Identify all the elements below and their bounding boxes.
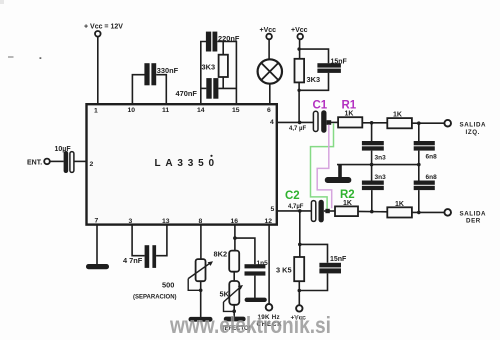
node junction 3K5 bottom xyxy=(298,289,302,293)
svg-text:5: 5 xyxy=(271,206,275,213)
terminal +Vcc (3K3 bias) xyxy=(291,27,308,40)
wire pin16 down xyxy=(234,225,236,250)
svg-text:10µF: 10µF xyxy=(55,146,72,153)
resistor 3K5 xyxy=(276,257,304,281)
svg-text:13: 13 xyxy=(162,218,170,225)
svg-text:1n5: 1n5 xyxy=(257,260,269,267)
svg-text:8: 8 xyxy=(199,218,203,225)
speck noise dot xyxy=(40,57,42,59)
svg-text:6: 6 xyxy=(267,107,271,114)
capacitor 6n8 (lower) xyxy=(414,174,437,190)
wire 15nF to 3K5 bottom xyxy=(299,273,327,290)
svg-text:7: 7 xyxy=(95,218,99,225)
wire 4.7nF to pin13 xyxy=(156,225,167,256)
svg-text:10: 10 xyxy=(128,107,136,114)
wire 5K wiper tie xyxy=(224,302,235,311)
svg-text:11: 11 xyxy=(162,107,169,114)
node junction on pin5 wire xyxy=(298,209,302,213)
wire 3K3 down to pin4 node xyxy=(298,82,300,122)
svg-text:C2: C2 xyxy=(285,190,300,202)
wire pin1 to +Vcc terminal xyxy=(97,37,99,105)
svg-text:+ Vcc = 12V: + Vcc = 12V xyxy=(84,24,123,31)
ground (pin8 / 500) xyxy=(189,317,213,322)
wire branch to 15nF bottom cap xyxy=(300,244,328,262)
speck noise left edge xyxy=(8,56,14,57)
wire R2 to 1K xyxy=(358,210,387,212)
wire 5K to ground xyxy=(233,305,235,317)
svg-text:5K: 5K xyxy=(220,290,230,299)
svg-text:3n3: 3n3 xyxy=(375,174,387,181)
capacitor 3n3 (lower) xyxy=(362,174,386,190)
wire 15nF bottom to 3K3 bottom xyxy=(299,73,328,90)
svg-text:+Vcc: +Vcc xyxy=(291,27,308,34)
wire pin4 to C1 xyxy=(277,121,314,123)
svg-text:4 7nF: 4 7nF xyxy=(123,256,143,265)
wire middle rail down to lower 3n3 xyxy=(371,165,373,181)
wire 1K to salida izq xyxy=(412,122,445,124)
svg-text:15nF: 15nF xyxy=(330,256,347,263)
svg-text:16: 16 xyxy=(231,218,239,225)
wire 3K5 to +Vcc terminal xyxy=(298,281,300,305)
capacitor C1 4.7uF xyxy=(313,99,328,133)
wire 8K2 to 5K xyxy=(233,272,235,281)
wire pin12 down to 19kHz check xyxy=(268,225,270,304)
terminal SALIDA DER xyxy=(444,209,486,224)
capacitor 6n8 (upper) xyxy=(414,141,437,160)
wire C2 node down to 3K5 xyxy=(299,211,301,257)
capacitor 1n5 xyxy=(245,260,269,276)
wire 500 wiper tie xyxy=(188,279,201,291)
capacitor 470nF xyxy=(176,78,219,99)
svg-text:3: 3 xyxy=(129,218,133,225)
svg-text:R1: R1 xyxy=(342,99,357,111)
svg-text:3K3: 3K3 xyxy=(307,75,321,84)
capacitor 10uF input xyxy=(55,146,74,173)
node A junction xyxy=(370,121,374,125)
node junction 5K bottom xyxy=(232,309,236,313)
ground (middle rail) xyxy=(325,165,352,183)
wire 1K to salida der xyxy=(412,211,445,213)
wire lower 3n3 to bottom row xyxy=(371,190,373,212)
svg-text:1K: 1K xyxy=(345,110,354,117)
node junction R2 out xyxy=(370,210,374,214)
wire +Vcc down to 3K3 xyxy=(299,39,301,59)
terminal ENT input xyxy=(27,159,50,167)
wire C1 to R1 xyxy=(331,121,338,123)
ground (1n5) xyxy=(245,298,267,302)
svg-text:14: 14 xyxy=(197,107,205,114)
svg-text:ENT.: ENT. xyxy=(27,159,42,166)
wire pin10 up and right to C 330nF xyxy=(132,75,144,105)
wire +Vcc to lamp xyxy=(268,39,270,59)
IC U1 LA3350 body xyxy=(87,104,277,224)
wire branch to 15nF xyxy=(299,49,328,63)
svg-text:4,7 µF: 4,7 µF xyxy=(289,126,306,132)
svg-text:www.elektronik.si: www.elektronik.si xyxy=(169,312,331,338)
potentiometer 5K xyxy=(220,281,244,305)
svg-text:LA3350: LA3350 xyxy=(155,158,219,169)
svg-text:R2: R2 xyxy=(340,189,355,201)
svg-text:SALIDA: SALIDA xyxy=(460,210,487,217)
svg-text:330nF: 330nF xyxy=(157,66,179,75)
wire 10uF to pin2 xyxy=(74,160,87,162)
wire 6n8 to middle rail xyxy=(418,151,420,165)
node junction bottom of 3K3 xyxy=(297,89,300,92)
wire C330nF to pin11 xyxy=(156,75,166,105)
svg-text:4: 4 xyxy=(270,119,274,126)
speck noise corner xyxy=(0,0,4,4)
capacitor 4.7nF xyxy=(123,245,156,268)
wire lamp to pin6 xyxy=(269,84,271,105)
terminal +Vcc (lamp) xyxy=(260,27,277,40)
svg-text:(SEPARACION): (SEPARACION) xyxy=(133,294,177,300)
wire ENT to 10uF xyxy=(50,160,64,162)
highlight line green (C1 to C2) xyxy=(311,123,334,209)
capacitor 15nF (top) xyxy=(317,59,347,73)
svg-text:12: 12 xyxy=(265,218,273,225)
svg-text:3K3: 3K3 xyxy=(202,62,216,71)
wire 500 to ground xyxy=(200,281,202,317)
terminal +Vcc (bottom) xyxy=(291,305,307,321)
svg-text:1K: 1K xyxy=(393,111,402,118)
svg-text:6n8: 6n8 xyxy=(426,153,438,160)
wire pin5 to C2 xyxy=(277,210,312,212)
svg-text:8K2: 8K2 xyxy=(214,249,228,258)
svg-text:6n8: 6n8 xyxy=(426,174,438,181)
svg-text:1K: 1K xyxy=(343,200,352,207)
node junction out der xyxy=(417,211,421,215)
highlight line magenta (C1 to C2) xyxy=(317,125,332,208)
svg-text:500: 500 xyxy=(162,280,174,289)
node junction rail/6n8 xyxy=(417,163,421,167)
svg-text:+Vcc: +Vcc xyxy=(260,27,277,34)
terminal +Vcc = 12V xyxy=(84,24,123,37)
wire 3n3 to middle rail xyxy=(371,151,373,165)
capacitor 3n3 (upper) xyxy=(362,141,386,161)
terminal 19kHz CHECK xyxy=(257,304,283,328)
wire middle rail down to lower 6n8 xyxy=(418,165,420,181)
node B junction xyxy=(417,121,421,125)
wire pin3 down to 4.7nF xyxy=(132,225,145,256)
wire C220nF to pin15 rail xyxy=(217,42,236,105)
wire node B down to 6n8 xyxy=(418,123,420,141)
node junction pin16 xyxy=(233,236,237,240)
svg-text:15nF: 15nF xyxy=(331,59,348,66)
node junction after C1 xyxy=(327,120,332,125)
wire pin16 branch to 1n5 xyxy=(235,238,255,264)
wire lower 6n8 to bottom row xyxy=(418,190,420,212)
svg-text:2: 2 xyxy=(90,161,94,168)
capacitor 220nF xyxy=(206,32,240,52)
svg-text:1: 1 xyxy=(94,108,98,115)
wire C2 to R2 xyxy=(324,210,335,212)
node junction bias on pin4 wire xyxy=(298,121,302,125)
svg-text:DER: DER xyxy=(466,217,481,224)
node junction top of 3K3 xyxy=(297,47,300,50)
wire 1n5 to ground xyxy=(254,276,256,298)
wire pin7 down xyxy=(96,225,98,264)
wire pin14 rail up xyxy=(201,42,206,105)
resistor 1K (right out) xyxy=(387,201,412,217)
resistor R1 1K xyxy=(338,99,362,127)
capacitor C2 4.7uF xyxy=(285,190,324,223)
potentiometer 500 (separacion) xyxy=(133,259,213,300)
resistor R2 1K xyxy=(335,189,358,216)
wire pin8 down xyxy=(200,225,202,259)
capacitor 15nF (bottom) xyxy=(319,256,347,274)
svg-text:SALIDA: SALIDA xyxy=(460,122,487,129)
middle ground rail xyxy=(337,164,419,166)
svg-text:3 K5: 3 K5 xyxy=(276,266,292,275)
svg-text:470nF: 470nF xyxy=(176,89,198,98)
wire 470nF right xyxy=(218,87,236,89)
wire 470nF left xyxy=(201,87,207,89)
ground (pin7) xyxy=(86,264,109,269)
svg-text:IZQ.: IZQ. xyxy=(466,129,480,136)
node junction 3K5 top xyxy=(298,243,302,247)
resistor 8K2 xyxy=(214,249,240,271)
node junction after C2 xyxy=(325,209,329,213)
capacitor 330nF xyxy=(144,63,178,85)
resistor 3K3 (pin4 bias) xyxy=(295,59,321,84)
resistor 3K3 (pins 14-15) xyxy=(202,42,228,89)
svg-text:C1: C1 xyxy=(313,99,328,111)
resistor 1K (left out) xyxy=(387,111,412,128)
lamp DS1 (stereo indicator) xyxy=(258,59,282,83)
svg-text:15: 15 xyxy=(232,107,240,114)
svg-text:1K: 1K xyxy=(395,201,404,208)
wire R1 to 1K xyxy=(362,122,387,124)
svg-text:4,7µF: 4,7µF xyxy=(288,204,304,210)
terminal SALIDA IZQ xyxy=(444,120,486,136)
svg-text:3n3: 3n3 xyxy=(375,154,387,161)
node junction rail/3n3 xyxy=(370,163,374,167)
ground (5K) xyxy=(224,317,246,322)
wire node A down to 3n3 xyxy=(371,123,373,141)
